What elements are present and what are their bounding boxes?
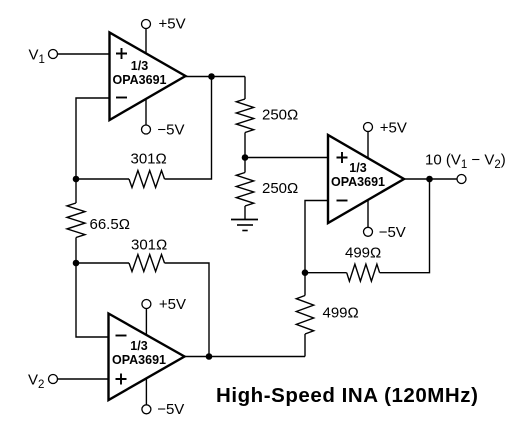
U1 noninverting input marker + <box>116 48 127 59</box>
U3 inverting input marker - <box>337 200 348 202</box>
wire V1 to U1 + input <box>57 53 109 55</box>
svg-text:OPA3691: OPA3691 <box>331 175 385 189</box>
terminal circle -5V (U1) <box>142 125 151 134</box>
svg-text:301Ω: 301Ω <box>131 151 167 168</box>
U2 noninverting input marker + <box>116 374 127 385</box>
terminal circle V1 <box>49 50 58 59</box>
svg-text:+5V: +5V <box>380 119 407 136</box>
node U2 output junction dot <box>206 353 213 360</box>
wire U1 output <box>186 76 246 78</box>
svg-text:OPA3691: OPA3691 <box>113 73 167 87</box>
svg-text:1/3: 1/3 <box>131 59 148 73</box>
wire U1 +5V supply <box>145 28 147 54</box>
wire node A to RG <box>75 179 77 203</box>
terminal circle +5V (U3) <box>364 123 373 132</box>
wire U2 output <box>185 356 306 358</box>
wire R3 to ground <box>244 206 246 220</box>
wire V2 to U2 + input <box>57 378 108 380</box>
terminal circle V2 <box>49 375 58 384</box>
wire U3 +5V supply <box>367 131 369 158</box>
node U3 output junction dot <box>426 176 433 183</box>
U3 noninverting input marker + <box>337 152 348 163</box>
op-amp U1 (1/3 OPA3691 top-left) <box>110 33 186 121</box>
svg-text:+5V: +5V <box>159 16 186 33</box>
svg-text:499Ω: 499Ω <box>345 245 381 262</box>
terminal circle -5V (U3) <box>364 227 373 236</box>
svg-text:OPA3691: OPA3691 <box>112 353 166 367</box>
wire R5 to node D <box>304 273 306 296</box>
svg-text:High-Speed INA (120MHz): High-Speed INA (120MHz) <box>216 384 478 407</box>
wire U1 output to R2 <box>244 77 246 100</box>
op-amp U2 (1/3 OPA3691 bottom-left) <box>109 314 185 401</box>
resistor R6 499ohm <box>347 264 380 281</box>
wire U2 -5V supply <box>145 378 147 405</box>
wire U3 output <box>404 178 457 180</box>
svg-text:1/3: 1/3 <box>349 161 366 175</box>
resistor R3 250ohm <box>236 173 253 207</box>
svg-text:499Ω: 499Ω <box>323 304 359 321</box>
op-amp U3 (1/3 OPA3691 right) <box>328 135 404 223</box>
ground <box>231 220 258 231</box>
svg-text:66.5Ω: 66.5Ω <box>90 216 130 233</box>
svg-text:1/3: 1/3 <box>130 339 147 353</box>
terminal circle +5V (U1) <box>142 20 151 29</box>
svg-text:301Ω: 301Ω <box>131 236 167 253</box>
terminal circle output <box>457 175 466 184</box>
wire node B to R3 <box>244 158 246 173</box>
node D junction dot <box>302 269 309 276</box>
svg-text:250Ω: 250Ω <box>262 107 298 124</box>
wire R6 to U3 output <box>380 179 430 273</box>
wire R2 to node B <box>244 133 246 158</box>
node U1 output junction dot <box>208 73 215 80</box>
wire node C to U2 - input <box>76 263 109 337</box>
wire U1 - input to node A <box>76 98 110 179</box>
resistor R1 301ohm <box>129 171 165 188</box>
wire node A to R1 <box>76 178 129 180</box>
wire node D to R6 <box>305 272 347 274</box>
wire U3 -5V supply <box>367 200 369 228</box>
terminal circle +5V (U2) <box>142 300 151 309</box>
node C junction dot <box>73 260 80 267</box>
wire R1 to U1 output <box>165 77 212 180</box>
resistor R2 250ohm <box>236 99 253 133</box>
svg-text:250Ω: 250Ω <box>262 180 298 197</box>
resistor R5 499ohm <box>296 296 313 335</box>
wire U1 -5V supply <box>145 98 147 125</box>
terminal circle -5V (U2) <box>142 405 151 414</box>
U2 inverting input marker - <box>116 335 127 337</box>
svg-text:−5V: −5V <box>379 224 406 241</box>
U1 inverting input marker - <box>116 97 127 99</box>
node B junction dot <box>242 154 249 161</box>
wire RG to node C <box>75 238 77 264</box>
wire R4 to U2 output <box>165 263 210 357</box>
resistor R4 301ohm <box>129 255 165 272</box>
wire U2 +5V supply <box>145 308 147 335</box>
svg-text:−5V: −5V <box>157 401 184 418</box>
svg-text:−5V: −5V <box>157 121 184 138</box>
wire U2 output to R5 <box>304 334 306 357</box>
svg-text:+5V: +5V <box>159 296 186 313</box>
node A junction dot <box>73 176 80 183</box>
wire node D to U3 - input <box>305 201 328 273</box>
wire node C to R4 <box>76 262 129 264</box>
resistor RG 66.5ohm <box>67 203 85 238</box>
wire node B to U3 + input <box>245 157 328 159</box>
